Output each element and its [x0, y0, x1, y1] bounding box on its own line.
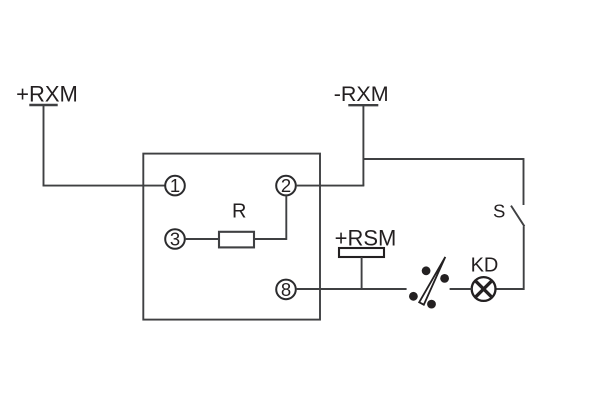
wire branch to switch S (top rail): [363, 158, 523, 160]
svg-text:2: 2: [281, 175, 291, 196]
wire down to switch S: [523, 158, 525, 205]
svg-text:8: 8: [281, 279, 291, 300]
svg-text:R: R: [232, 201, 246, 223]
svg-text:3: 3: [170, 229, 180, 250]
wire from +RXM terminal down: [43, 105, 45, 186]
terminal bar +RXM: [29, 104, 57, 106]
svg-text:1: 1: [170, 175, 180, 196]
svg-text:S: S: [493, 201, 505, 222]
relay box outline: [143, 154, 320, 320]
wire switch S to bottom corner: [495, 226, 524, 289]
wire pin 2 to -RXM junction: [296, 185, 365, 187]
wire resistor to riser: [254, 238, 286, 240]
contact blade (removable link): [419, 257, 445, 305]
svg-text:+RSM: +RSM: [335, 225, 397, 250]
pin 3: [165, 229, 185, 250]
resistor R: [219, 232, 254, 248]
svg-text:+RXM: +RXM: [16, 82, 78, 107]
pin 1: [165, 175, 185, 196]
contact dot upper-left: [422, 266, 431, 275]
pin 8: [276, 279, 296, 300]
svg-text:-RXM: -RXM: [334, 82, 389, 106]
svg-text:KD: KD: [471, 255, 499, 277]
pin 2: [276, 175, 296, 196]
wire riser up to pin 2: [285, 195, 287, 240]
contact dot upper-right: [440, 274, 449, 283]
wire pin 8 to contact: [296, 288, 407, 290]
terminal bar -RXM: [348, 104, 378, 106]
contact dot lower-right: [427, 300, 436, 309]
wire pin 3 to resistor: [185, 238, 219, 240]
wire lamp to contact: [450, 288, 472, 290]
wire +RSM link to bottom rail: [361, 257, 363, 289]
switch S blade: [511, 206, 524, 227]
wire from -RXM terminal down to junction: [362, 105, 364, 185]
lamp KD: [472, 277, 496, 301]
contact dot lower-left: [409, 292, 418, 301]
wire from +RXM corner to pin 1: [43, 185, 166, 187]
node +RXM label: [16, 82, 78, 107]
link bar +RSM: [339, 248, 384, 257]
